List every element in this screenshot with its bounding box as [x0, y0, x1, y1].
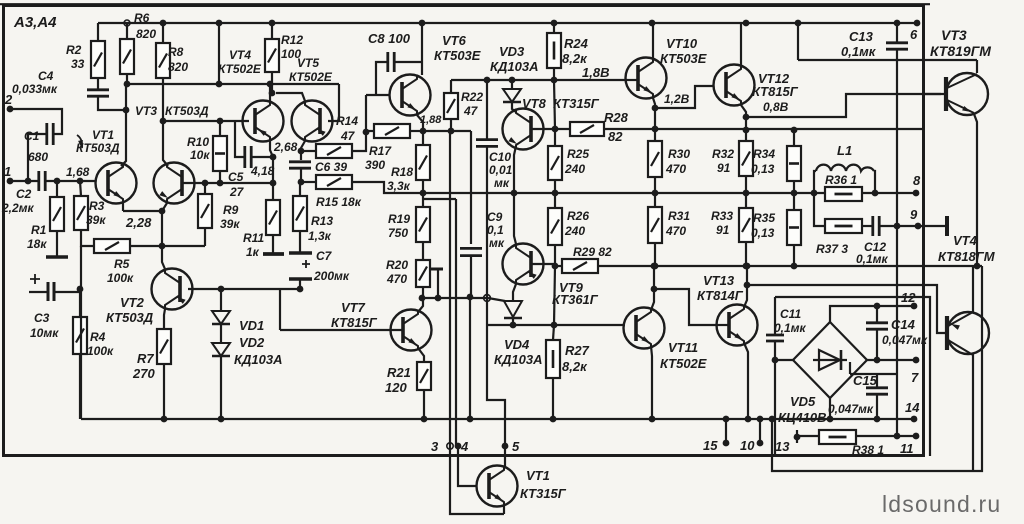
junction gnd bridge	[827, 416, 834, 423]
wire VT4 collector down	[270, 141, 273, 157]
label R11	[243, 231, 264, 245]
transistor VT3 output	[946, 73, 988, 115]
svg-text:КТ502Е: КТ502Е	[218, 62, 262, 76]
junction R32 bottom	[743, 190, 750, 197]
wire VT4 emitter up	[269, 84, 271, 101]
terminal 1 dot	[7, 178, 14, 185]
pin 7 label	[911, 370, 919, 385]
wire top supply rail	[98, 22, 917, 24]
junction rail R24	[551, 20, 558, 27]
label C6 value	[315, 160, 347, 174]
wire node y121 to R10	[163, 120, 249, 122]
wire terminal9 to contact	[918, 225, 945, 227]
wire VD1 top	[220, 289, 222, 311]
node voltage 1,2V	[664, 92, 690, 106]
svg-text:82: 82	[608, 129, 623, 144]
wire C5 left	[235, 121, 244, 157]
svg-text:VT7: VT7	[341, 300, 366, 315]
svg-text:КТ503Е: КТ503Е	[660, 51, 707, 66]
wire R31 top	[654, 193, 656, 207]
label C9 name	[487, 210, 503, 224]
transistor VT7	[391, 310, 432, 351]
wire VT8 base	[531, 128, 570, 130]
svg-text:С11: С11	[780, 307, 801, 321]
svg-text:750: 750	[388, 226, 408, 240]
wire VT1 muting emitter	[503, 506, 505, 514]
svg-text:240: 240	[564, 224, 585, 238]
wire C13 column	[896, 23, 898, 42]
resistor R7	[157, 329, 171, 364]
transistor VT9	[503, 244, 544, 285]
tap bar at R20	[430, 268, 443, 271]
svg-text:R22: R22	[461, 90, 483, 104]
label VT5 type	[289, 70, 333, 84]
wire R9 bottom to R5 wire	[204, 228, 206, 246]
label R15 value	[316, 195, 362, 209]
node voltage 0,8V	[763, 100, 789, 114]
junction input C1	[25, 178, 32, 185]
label C11	[780, 307, 801, 321]
wire R4 top	[79, 289, 81, 317]
wire VT4 collector	[972, 354, 974, 471]
wire bridge right to 7	[867, 359, 916, 361]
svg-text:390: 390	[365, 158, 385, 172]
label C15 value	[828, 402, 874, 416]
svg-text:2,28: 2,28	[125, 215, 152, 230]
resistor R24	[547, 33, 561, 68]
resistor R37	[825, 219, 862, 233]
wire C15 top link	[850, 373, 897, 375]
terminal 5 dot	[502, 443, 509, 450]
wire mid bus	[423, 192, 916, 194]
svg-text:R6: R6	[134, 11, 150, 25]
svg-text:0,047мк: 0,047мк	[828, 402, 874, 416]
svg-text:С1: С1	[24, 129, 40, 143]
junction C9 bottom	[467, 294, 474, 301]
wire x450 column	[449, 132, 451, 446]
resistor R32	[739, 141, 753, 176]
wire C4node to VT1 collector	[121, 110, 126, 166]
transistor VT1 muting	[477, 466, 518, 507]
svg-text:КТ502Е: КТ502Е	[289, 70, 333, 84]
svg-text:С13: С13	[849, 29, 874, 44]
svg-text:R15 18к: R15 18к	[316, 195, 362, 209]
junction gnd wrap	[769, 416, 776, 423]
wire C14 top	[876, 306, 878, 322]
svg-text:С4: С4	[38, 69, 54, 83]
junction VT8 base node	[552, 126, 559, 133]
resistor R5	[94, 239, 130, 253]
label R20 value	[386, 272, 407, 286]
label VT10 type	[660, 51, 707, 66]
resistor R34	[787, 146, 801, 181]
wire R18 bottom	[422, 180, 424, 193]
label C10 name	[489, 150, 511, 164]
label C5 27	[229, 185, 245, 199]
svg-text:КД103А: КД103А	[494, 352, 542, 367]
junction y266 VT13	[744, 263, 751, 270]
wire x487 jog to 5	[487, 297, 505, 446]
svg-text:470: 470	[665, 162, 686, 176]
label VT7 type	[331, 315, 378, 330]
junction gnd C15	[874, 416, 881, 423]
svg-text:С2: С2	[16, 187, 32, 201]
wire bias busA corner down	[470, 131, 472, 244]
svg-text:0,13: 0,13	[751, 162, 775, 176]
wire VT10 collector	[652, 23, 654, 58]
svg-text:VD1: VD1	[239, 318, 264, 333]
wire L1 right riser	[874, 171, 875, 193]
wire VT3 base	[182, 182, 220, 184]
label R33 value 91	[716, 223, 730, 237]
svg-text:КТ502Е: КТ502Е	[660, 356, 707, 371]
bridge rectifier VD5	[793, 322, 867, 398]
label C14	[891, 317, 916, 332]
transistor VT3	[154, 163, 195, 204]
junction C7 bottom	[297, 286, 304, 293]
label C10 val1	[489, 163, 513, 177]
svg-text:27: 27	[229, 185, 245, 199]
svg-text:3,3к: 3,3к	[387, 179, 411, 193]
svg-text:0,13: 0,13	[751, 226, 775, 240]
label C4	[38, 69, 54, 83]
label C11 value	[774, 321, 807, 335]
wire R30 bottom	[654, 177, 656, 193]
wire VT6 base	[366, 94, 390, 96]
label VT8	[522, 96, 547, 111]
label VD3	[499, 44, 525, 59]
wire R7 bottom	[163, 364, 165, 419]
label R35 value	[751, 226, 775, 240]
label VD3 type	[490, 59, 538, 74]
label C15	[853, 373, 878, 388]
svg-text:1,3к: 1,3к	[308, 229, 332, 243]
svg-text:С14: С14	[891, 317, 916, 332]
junction L1 right	[872, 190, 879, 197]
node voltage 1,68	[66, 165, 90, 179]
label VT3 output	[941, 27, 967, 43]
resistor R36	[825, 187, 862, 201]
svg-text:R14: R14	[336, 114, 358, 128]
label R24 value	[562, 51, 588, 66]
junction x301 y182	[298, 179, 305, 186]
junction R17 left	[363, 129, 370, 136]
terminal 10 dot	[757, 440, 764, 447]
label R37 value	[816, 242, 848, 256]
label R3	[89, 199, 105, 213]
wire R37 left riser	[814, 193, 825, 226]
junction VT12 emitter	[743, 114, 750, 121]
label VT6	[442, 33, 467, 48]
svg-text:VT6: VT6	[442, 33, 467, 48]
label R35	[753, 211, 775, 225]
svg-text:VT1: VT1	[526, 468, 550, 483]
label C4 value	[12, 82, 58, 96]
label VT4 output	[953, 233, 978, 248]
label R12	[281, 33, 303, 47]
svg-text:1,68: 1,68	[66, 165, 90, 179]
label R21	[387, 365, 411, 380]
label R5 value	[107, 271, 134, 285]
wire terminal2 to C1	[10, 109, 62, 134]
junction R26 bottom	[552, 263, 559, 270]
junction gnd VT13	[745, 416, 752, 423]
wire R9 top	[204, 183, 206, 194]
junction busB R32	[743, 127, 750, 134]
svg-text:КТ503Д: КТ503Д	[76, 141, 120, 155]
svg-text:0,8В: 0,8В	[763, 100, 789, 114]
wire R32 top	[745, 130, 747, 141]
svg-text:0,01: 0,01	[489, 163, 513, 177]
svg-text:R5: R5	[114, 257, 130, 271]
wire C7 bottom	[299, 279, 301, 289]
label R33	[711, 209, 733, 223]
label VT3	[135, 104, 157, 118]
wire C4 to node	[98, 96, 126, 110]
label VT11 type	[660, 356, 707, 371]
svg-text:10к: 10к	[190, 148, 210, 162]
wire C15 top	[876, 374, 878, 387]
label R27	[565, 343, 590, 358]
svg-text:С3: С3	[34, 311, 50, 325]
label C14 value	[882, 333, 928, 347]
junction rail x798	[795, 20, 802, 27]
svg-text:R12: R12	[281, 33, 303, 47]
wire C8 left	[376, 62, 387, 95]
svg-text:R1: R1	[31, 223, 47, 237]
svg-text:2,68: 2,68	[273, 140, 298, 154]
label R34	[753, 147, 775, 161]
label R28	[604, 110, 629, 125]
junction gnd 10	[757, 416, 764, 423]
svg-text:ldsound.ru: ldsound.ru	[882, 491, 1001, 517]
resistor R25	[548, 146, 562, 180]
label R26 value	[564, 224, 585, 238]
label R14	[336, 114, 358, 128]
junction rail R12	[269, 20, 276, 27]
terminal 6 dot	[914, 20, 921, 27]
label VT6 type	[434, 48, 481, 63]
pin 6 label	[910, 27, 918, 42]
wire bias node y80	[451, 79, 628, 81]
label VT13	[703, 273, 735, 288]
svg-text:0,047мк: 0,047мк	[882, 333, 928, 347]
svg-text:470: 470	[665, 224, 686, 238]
wire C9 bottom	[470, 256, 472, 297]
wire y60 VT3 collector	[798, 59, 977, 61]
pin 14 label	[905, 400, 920, 415]
svg-text:С6 39: С6 39	[315, 160, 347, 174]
svg-text:820: 820	[168, 60, 188, 74]
label R30 value	[665, 162, 686, 176]
label R28 value 82	[608, 129, 623, 144]
label R20	[386, 258, 408, 272]
capacitor C15	[866, 388, 888, 394]
wire C2 to VT1 base	[46, 180, 95, 182]
junction rail R6	[124, 20, 130, 26]
junction rail VT10	[649, 20, 656, 27]
watermark ldsound.ru	[882, 491, 1001, 517]
junction VT2 collector R5wire	[159, 243, 166, 250]
svg-text:R24: R24	[564, 36, 589, 51]
pin 3 label	[431, 439, 439, 454]
svg-text:14: 14	[905, 400, 920, 415]
label C12	[864, 240, 886, 254]
resistor R27	[546, 340, 560, 378]
transistor VT5	[292, 101, 333, 142]
svg-text:4,18: 4,18	[250, 164, 275, 178]
wire feedback column x897	[896, 60, 898, 436]
svg-text:КТ503Е: КТ503Е	[434, 48, 481, 63]
capacitor C7 electrolytic	[289, 253, 312, 279]
wire x456 column	[455, 199, 457, 446]
svg-text:R2: R2	[66, 43, 82, 57]
pin 13 label	[775, 439, 790, 454]
terminal 3 dot	[447, 443, 453, 449]
wire R14 left	[301, 150, 316, 152]
wire VT8 emitter down	[514, 146, 516, 193]
label VD5 type	[778, 410, 827, 425]
wire c15 link stub	[849, 362, 851, 374]
svg-text:10мк: 10мк	[30, 326, 59, 340]
svg-text:12: 12	[901, 290, 916, 305]
svg-text:R36 1: R36 1	[825, 173, 857, 187]
svg-text:R20: R20	[386, 258, 408, 272]
junction R10 bottom	[217, 180, 224, 187]
wire VT13 collector	[744, 266, 747, 307]
svg-text:6: 6	[910, 27, 918, 42]
svg-text:1,8В: 1,8В	[582, 65, 609, 80]
wire VD3 top	[511, 80, 513, 89]
label C5	[228, 170, 244, 184]
label R26	[567, 209, 589, 223]
label VT2 type	[106, 310, 154, 325]
resistor R17	[374, 124, 410, 138]
junction x422 y298	[419, 295, 426, 302]
wire C12 to terminal 9	[880, 225, 918, 227]
wire emitters join	[123, 210, 162, 212]
label VT1 type	[76, 141, 120, 155]
wire bias bus A	[423, 130, 471, 132]
junction VT10 emitter step	[652, 105, 659, 112]
wire R33 bottom	[745, 242, 747, 266]
resistor R33	[739, 208, 753, 242]
label L1	[837, 143, 852, 158]
wire to VT3 collector	[163, 121, 168, 166]
wire R3 bottom to R5	[81, 230, 94, 246]
wire R24 bottom	[553, 68, 555, 80]
label VT10	[666, 36, 698, 51]
junction gnd 15	[723, 416, 730, 423]
wire VT2 collector to VT7 base	[221, 288, 300, 290]
wire VT3 base	[924, 93, 944, 95]
label C10 val2	[494, 176, 510, 190]
wire VT7 collector	[418, 299, 423, 312]
label R1	[31, 223, 47, 237]
wire R17 left	[366, 130, 374, 132]
svg-text:470: 470	[386, 272, 407, 286]
junction rail VT6	[419, 20, 426, 27]
wire R27 bottom	[552, 378, 554, 419]
wire R31 bottom	[654, 243, 656, 266]
wire mirror emitters bus y84	[127, 83, 339, 85]
junction R34 bottom	[791, 190, 798, 197]
wire C14 bottom	[876, 330, 878, 360]
wire R12 bottom	[271, 72, 273, 93]
junction R25 bottom	[552, 190, 559, 197]
input pointer mark	[77, 135, 83, 149]
svg-text:R9: R9	[223, 203, 239, 217]
resistor R14	[316, 144, 352, 158]
svg-text:R8: R8	[168, 45, 184, 59]
label R7 value	[132, 366, 155, 381]
subcircuit box	[775, 297, 930, 456]
wire VT3 emitter	[162, 203, 167, 211]
svg-text:1: 1	[4, 164, 11, 179]
svg-text:39к: 39к	[86, 213, 106, 227]
svg-text:4: 4	[460, 439, 469, 454]
wire VT6 emitter	[417, 115, 423, 131]
diode VD4	[504, 301, 522, 318]
label C13 value	[841, 44, 877, 59]
junction emitters	[159, 208, 166, 215]
label VT4 type	[218, 62, 262, 76]
label C1 value 680	[28, 150, 48, 164]
wire R25 bottom	[554, 180, 556, 193]
wire bus y266 right	[598, 265, 982, 267]
svg-text:А3,А4: А3,А4	[13, 14, 57, 31]
svg-text:13: 13	[775, 439, 790, 454]
capacitor C14	[866, 323, 888, 329]
svg-text:R4: R4	[90, 330, 106, 344]
wire R13 bottom to C7	[299, 231, 301, 253]
wire R14 right	[352, 132, 366, 151]
junction C14 top	[874, 303, 881, 310]
resistor R13	[293, 196, 307, 231]
wire R37 to C12	[862, 225, 872, 227]
wire C10 bottom	[486, 147, 488, 298]
wire VT12 emitter to VT3 base	[746, 94, 941, 117]
pin 8 label	[913, 173, 921, 188]
wire C13 bottom	[896, 50, 898, 60]
junction R9 top	[202, 180, 209, 187]
wire R21 bottom	[423, 390, 425, 419]
node voltage 4,18	[250, 164, 275, 178]
svg-text:С8 100: С8 100	[368, 31, 411, 46]
svg-text:КТ814Г: КТ814Г	[697, 288, 744, 303]
pin 11 label	[900, 441, 914, 456]
wire rail to R6	[126, 23, 128, 39]
svg-text:R3: R3	[89, 199, 105, 213]
ground bar R11	[263, 252, 284, 256]
label C8 value	[368, 31, 411, 46]
resistor R12	[265, 39, 279, 72]
diode VD3	[503, 89, 521, 102]
svg-text:0,033мк: 0,033мк	[12, 82, 58, 96]
transistor VT4 output	[947, 312, 989, 355]
wire R10 bottom	[219, 171, 221, 183]
svg-text:R25: R25	[567, 147, 589, 161]
wire rail to R24	[553, 23, 555, 33]
wire R15 left	[301, 181, 316, 183]
terminal 7 dot	[913, 357, 920, 364]
svg-text:R31: R31	[668, 209, 690, 223]
svg-text:VT3: VT3	[941, 27, 967, 43]
svg-text:47: 47	[340, 129, 356, 143]
label R10	[187, 135, 209, 149]
wire C9col to gnd	[469, 297, 471, 419]
terminal 15 dot	[723, 440, 730, 447]
